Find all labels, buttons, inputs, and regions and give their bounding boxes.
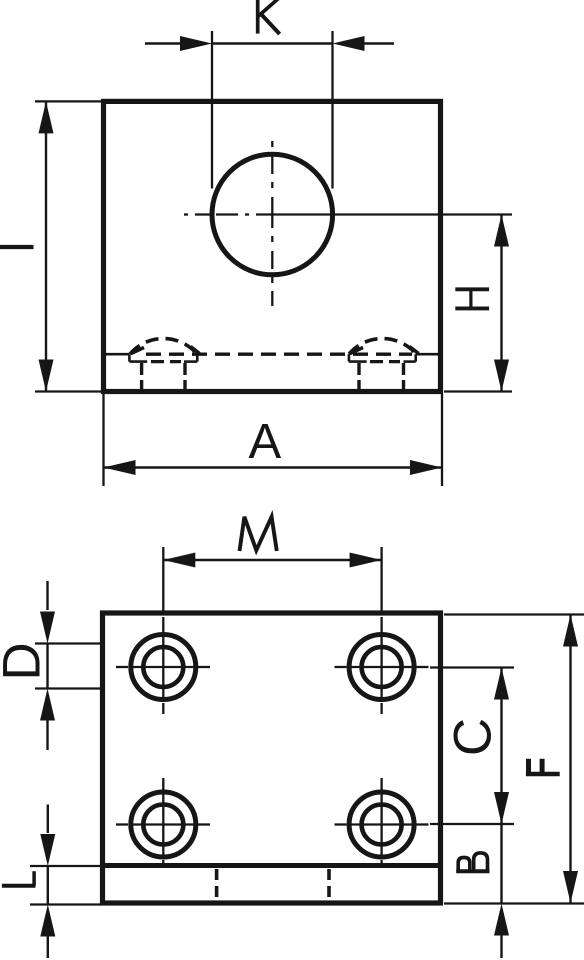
bore circle xyxy=(212,154,333,275)
dimension A line and arrows xyxy=(104,466,443,468)
dimension L extension lines xyxy=(30,865,101,867)
hole crosshairs horizontal xyxy=(116,667,429,825)
right slot hidden walls xyxy=(357,363,360,390)
dimension I line and arrows xyxy=(45,101,47,391)
right slot hidden bottom xyxy=(370,360,400,363)
bore vertical centerline xyxy=(271,141,273,306)
dimension I extension lines xyxy=(35,100,101,102)
slot base line solid left xyxy=(104,353,130,356)
dimension K lines and arrows xyxy=(145,42,181,44)
right slot dome xyxy=(349,339,416,354)
label L xyxy=(2,871,36,886)
dimension D extension lines xyxy=(35,642,102,644)
svg-text:D: D xyxy=(0,642,52,680)
right slot step outline xyxy=(349,354,416,361)
dimension H extension line xyxy=(444,390,512,392)
bore horizontal centerline xyxy=(184,213,512,215)
dimension L line and arrows xyxy=(47,805,49,834)
svg-text:A: A xyxy=(249,415,282,469)
left slot hidden walls xyxy=(140,363,143,390)
strip hidden tick left xyxy=(215,869,219,899)
strip hidden tick right xyxy=(327,869,331,899)
dimension H line and arrows xyxy=(500,215,502,392)
bottom strip line xyxy=(103,863,441,868)
dimension B line and arrows xyxy=(500,824,502,904)
hole bottom-left xyxy=(131,792,196,857)
right side extension lines xyxy=(430,615,584,904)
top view plate outline xyxy=(104,101,441,391)
svg-text:C: C xyxy=(444,718,503,756)
dimension K extension lines xyxy=(211,31,213,189)
bottom view plate outline xyxy=(103,613,441,903)
label H xyxy=(455,288,489,311)
hole crosshairs vertical (top holes merge with M extensions) xyxy=(163,547,381,864)
label I xyxy=(0,245,34,249)
dimension A extension lines xyxy=(102,394,104,486)
slot base line solid right xyxy=(416,353,441,356)
dimension D line and arrows xyxy=(46,581,48,610)
hole top-left xyxy=(131,635,196,700)
label K xyxy=(258,0,280,34)
dimension C line and arrows xyxy=(500,668,502,825)
left slot hidden bottom xyxy=(151,360,181,363)
dimension M line and arrows xyxy=(163,559,381,561)
label B xyxy=(456,853,489,872)
dimension F line and arrows xyxy=(569,615,571,904)
left slot step outline xyxy=(129,354,197,361)
hole top-right xyxy=(349,635,414,700)
left slot dome xyxy=(130,339,197,354)
hole bottom-right xyxy=(349,792,414,857)
label M xyxy=(240,517,277,551)
label F xyxy=(526,759,560,776)
slot hidden line across xyxy=(146,353,412,356)
